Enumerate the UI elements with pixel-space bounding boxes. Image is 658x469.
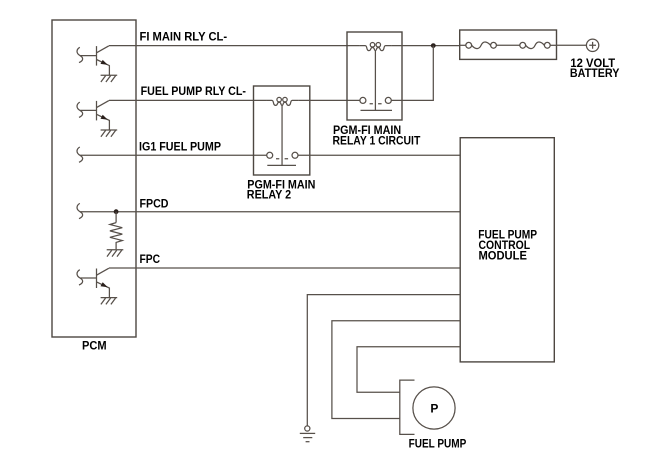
svg-text:FPCD: FPCD — [140, 197, 169, 211]
transistor Q1 collector wire (FI MAIN RLY CL-) — [109, 45, 359, 47]
junction node — [431, 43, 436, 48]
svg-text:FPC: FPC — [140, 252, 161, 266]
connector squiggle Q2 base — [77, 102, 83, 117]
svg-text:RELAY 2: RELAY 2 — [247, 187, 292, 201]
transistor Q1 — [80, 46, 109, 75]
relay 2 plunger line — [281, 105, 283, 165]
transistor Q2 — [80, 101, 109, 130]
wire fuse box to battery — [557, 44, 587, 46]
relay 2 contact left — [267, 152, 273, 158]
transistor Q3 collector wire (FPC) — [109, 267, 460, 269]
relay 2 coil — [266, 97, 298, 105]
svg-text:PCM: PCM — [82, 339, 107, 353]
wire relay2 coil to relay1 contact — [298, 99, 360, 101]
fuel pump bracket — [400, 380, 415, 434]
svg-text:P: P — [430, 402, 438, 416]
wire relay1 coil to fuse box — [391, 45, 459, 47]
ground (Q3 emitter) — [101, 298, 118, 305]
svg-text:FUEL PUMP RLY CL-: FUEL PUMP RLY CL- — [141, 84, 246, 98]
svg-text:FUEL PUMP: FUEL PUMP — [409, 436, 467, 450]
wire module to pump upper — [357, 347, 460, 392]
wire module ground — [307, 295, 460, 426]
transistor Q2 collector wire (FUEL PUMP RLY CL-) — [109, 99, 266, 101]
relay 2 contact right — [292, 152, 298, 158]
svg-text:MODULE: MODULE — [479, 249, 527, 263]
relay 1 contact left — [360, 97, 366, 103]
svg-text:RELAY 1 CIRCUIT: RELAY 1 CIRCUIT — [333, 134, 421, 148]
12 VOLT BATTERY label — [570, 56, 620, 80]
connector squiggle Q1 base — [77, 47, 83, 62]
relay 2 contact dashes — [276, 158, 288, 160]
connector squiggle IG1 — [77, 147, 83, 162]
ground (Q2 emitter) — [101, 130, 118, 137]
battery (12 VOLT BATTERY) — [586, 39, 598, 51]
wire relay2 contact to module (IG1) — [298, 154, 460, 156]
relay 2 armature bar — [267, 164, 296, 166]
relay 1 plunger line — [374, 51, 376, 111]
relay 1 box (PGM-FI MAIN RELAY 1 CIRCUIT) — [347, 32, 402, 120]
relay 1 contact right — [385, 97, 391, 103]
PGM-FI MAIN RELAY 2 label — [247, 178, 316, 202]
connector squiggle Q3 base — [77, 270, 83, 285]
resistor — [110, 212, 122, 250]
fuse F1 — [460, 42, 497, 49]
fuse box — [460, 30, 557, 59]
earth ground — [300, 426, 315, 442]
relay 2 box (PGM-FI MAIN RELAY 2) — [254, 86, 310, 175]
wire module to pump lower — [332, 321, 460, 419]
IG1 FUEL PUMP wire — [80, 154, 266, 156]
PGM-FI MAIN RELAY 1 CIRCUIT label — [333, 123, 421, 148]
svg-text:FI MAIN RLY CL-: FI MAIN RLY CL- — [140, 30, 228, 44]
ground (resistor) — [107, 250, 124, 257]
transistor Q3 — [80, 268, 109, 297]
svg-text:BATTERY: BATTERY — [570, 66, 620, 80]
junction FPCD/resistor — [114, 209, 119, 214]
relay 1 coil — [359, 43, 391, 51]
fuse F2 — [496, 42, 556, 49]
FUEL PUMP CONTROL MODULE label — [478, 227, 537, 262]
ground (Q1 emitter) — [101, 75, 118, 82]
relay 1 armature bar — [361, 109, 393, 111]
svg-text:IG1 FUEL PUMP: IG1 FUEL PUMP — [139, 139, 221, 153]
fuel pump motor — [413, 387, 455, 429]
wire junction drop to relay1 contact — [391, 46, 433, 101]
connector squiggle FPCD — [77, 203, 83, 218]
FPCD wire — [80, 211, 460, 213]
relay 1 contact dashes — [370, 103, 382, 105]
fuel pump control module box — [460, 138, 554, 362]
PCM box — [52, 20, 136, 337]
